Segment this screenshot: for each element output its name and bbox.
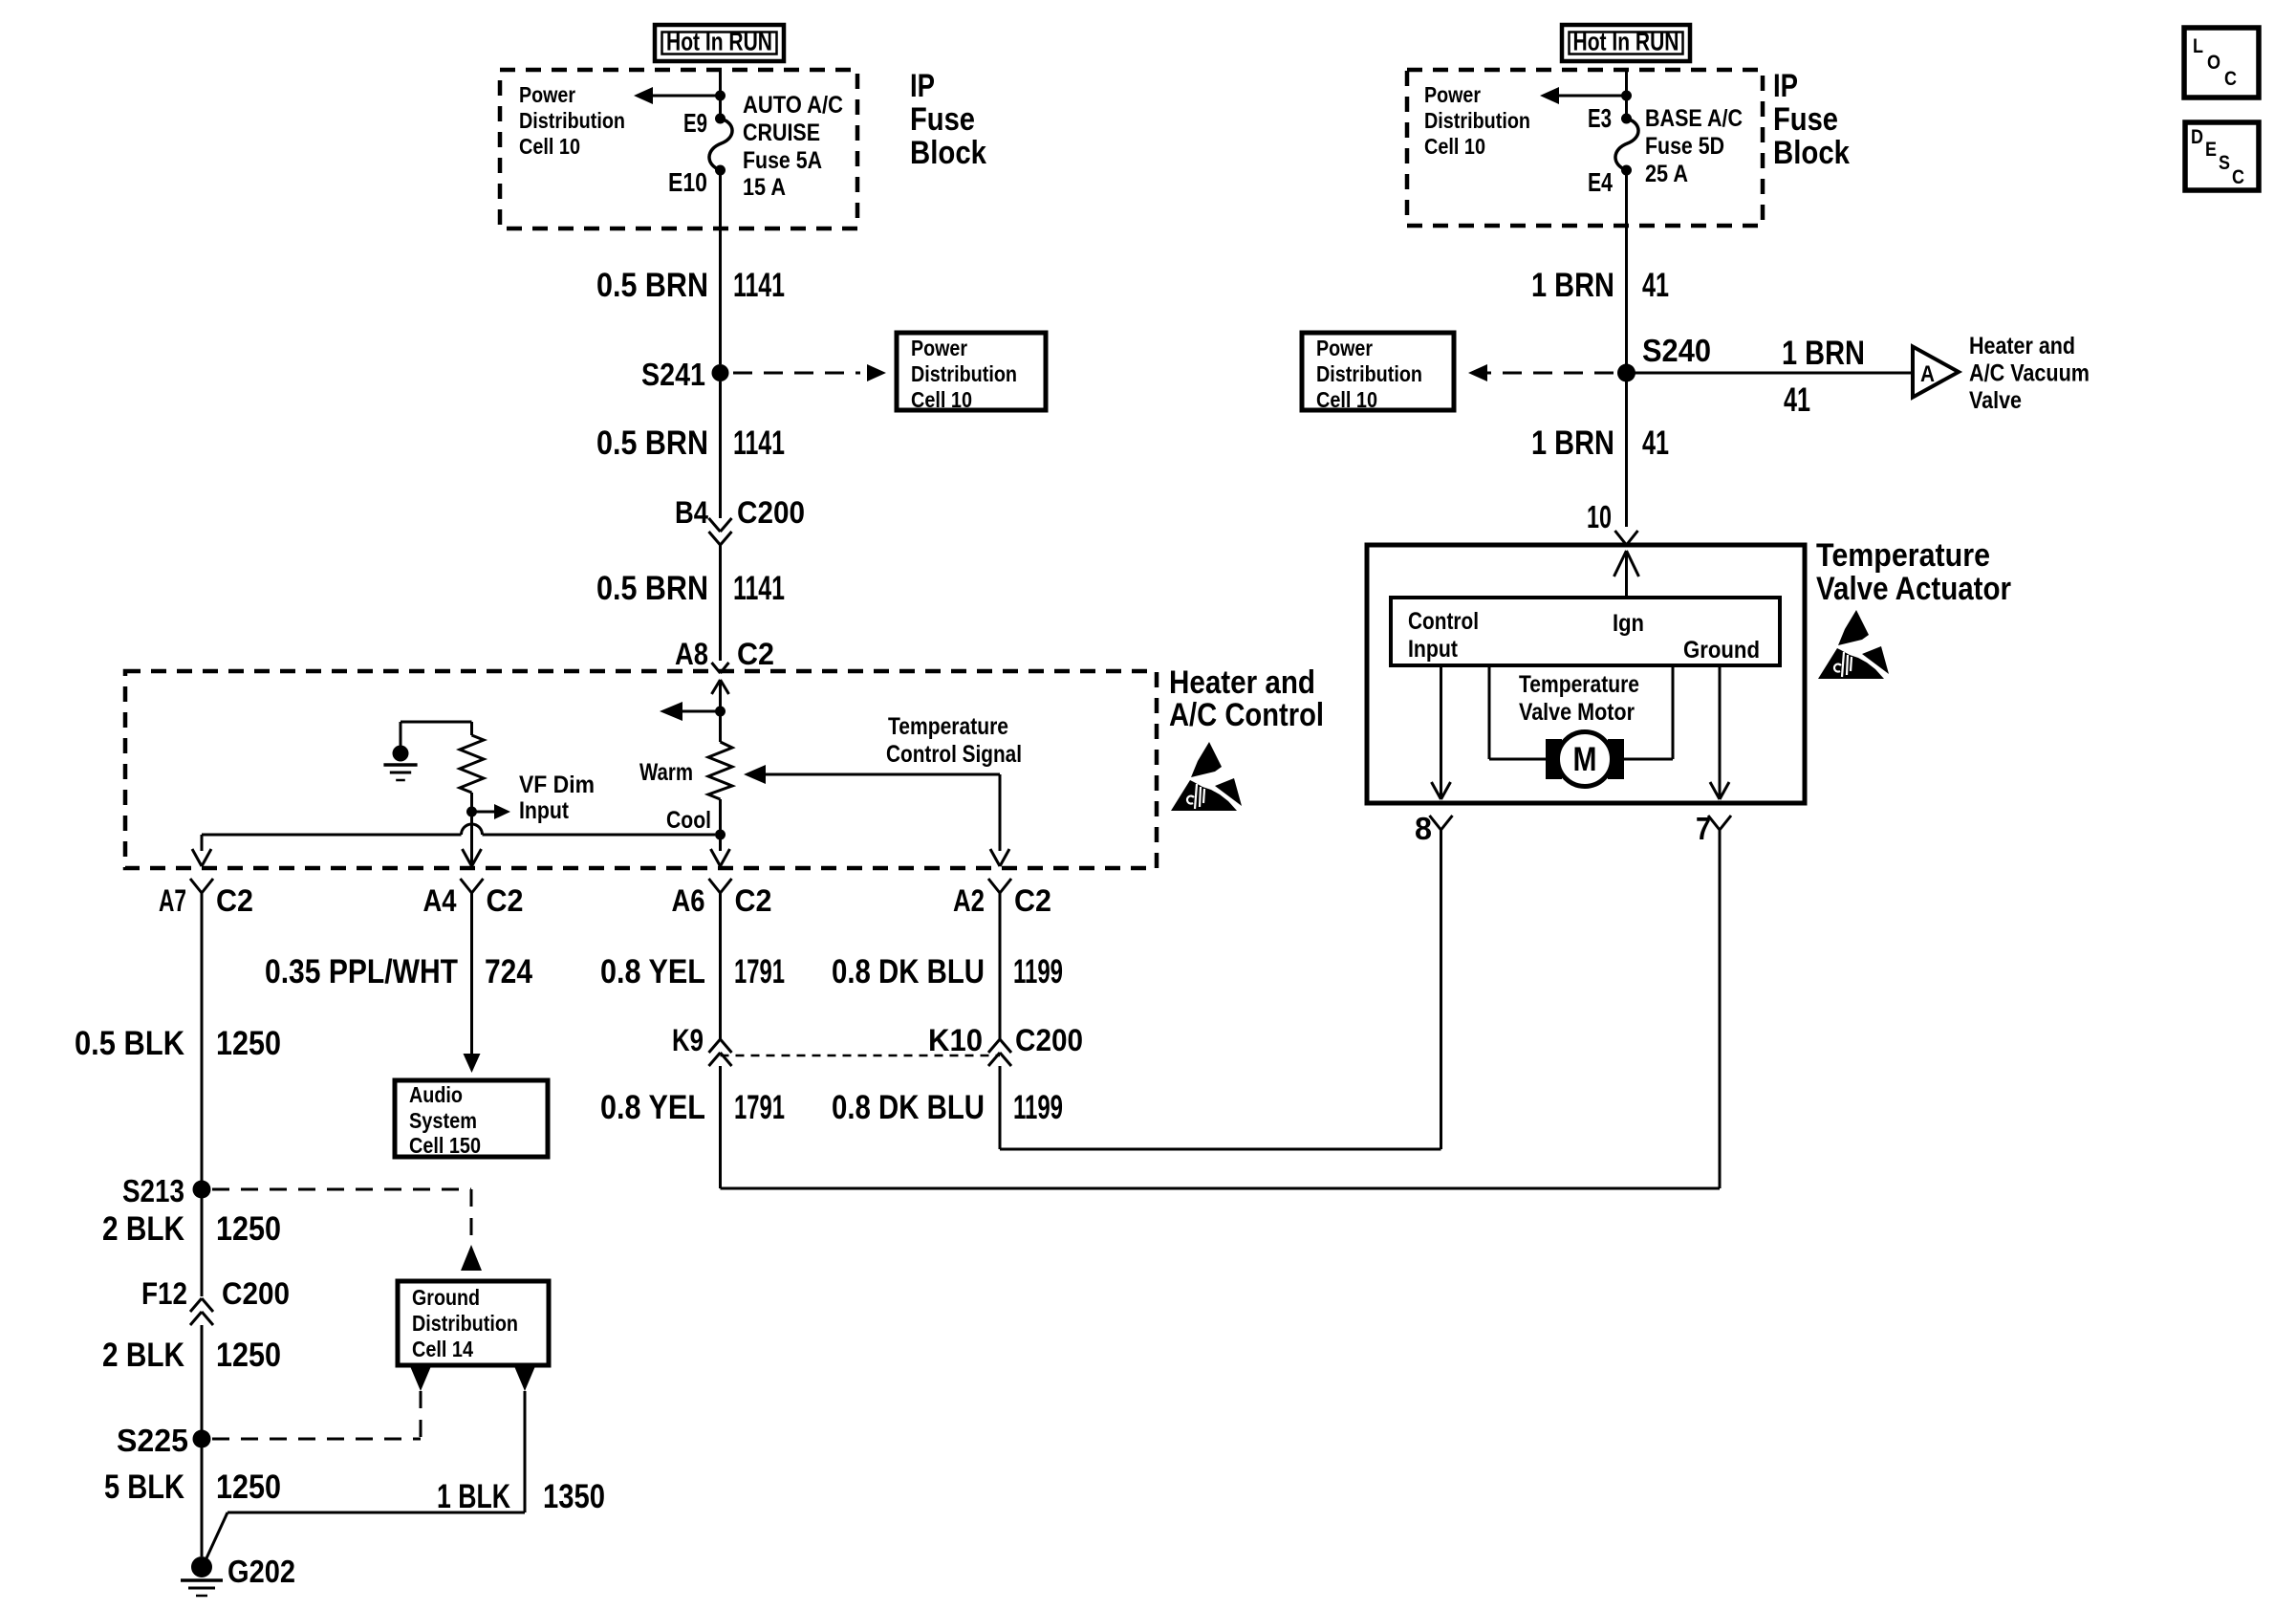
svg-text:E9: E9 [683,108,707,138]
svg-text:1 BRN: 1 BRN [1782,335,1865,372]
svg-text:1199: 1199 [1013,1089,1063,1126]
svg-text:5 BLK: 5 BLK [104,1469,184,1506]
svg-text:Heater and: Heater and [1169,664,1315,701]
svg-text:C200: C200 [737,495,805,530]
svg-text:1791: 1791 [734,953,785,990]
svg-text:1350: 1350 [543,1478,605,1515]
svg-text:F12: F12 [141,1276,187,1311]
svg-text:CRUISE: CRUISE [743,120,820,146]
svg-text:Valve Motor: Valve Motor [1519,699,1635,726]
svg-text:VF Dim: VF Dim [519,772,595,798]
svg-text:1 BLK: 1 BLK [437,1478,510,1515]
svg-text:15 A: 15 A [743,174,786,201]
svg-text:0.5 BRN: 0.5 BRN [596,267,708,304]
svg-text:Warm: Warm [639,759,693,786]
svg-text:K10: K10 [928,1023,983,1057]
svg-text:B4: B4 [675,495,708,530]
svg-text:Distribution: Distribution [1316,361,1422,386]
svg-text:Hot In RUN: Hot In RUN [666,28,772,56]
svg-text:D: D [2191,126,2203,148]
svg-text:Hot In RUN: Hot In RUN [1573,28,1679,56]
svg-text:1141: 1141 [733,570,785,607]
svg-text:Ground: Ground [412,1285,480,1310]
svg-text:C2: C2 [216,883,253,918]
svg-text:A: A [1920,361,1935,387]
svg-text:Cell 10: Cell 10 [911,387,972,412]
svg-text:41: 41 [1642,267,1669,304]
svg-text:A6: A6 [672,883,705,918]
svg-text:0.8 DK BLU: 0.8 DK BLU [832,1089,985,1126]
svg-text:Block: Block [910,135,986,171]
svg-text:1141: 1141 [733,267,785,304]
svg-text:Fuse: Fuse [1773,101,1838,138]
svg-text:A4: A4 [423,883,457,918]
svg-text:Audio: Audio [409,1082,463,1107]
svg-text:BASE A/C: BASE A/C [1645,105,1743,132]
svg-text:2 BLK: 2 BLK [102,1337,184,1374]
svg-text:Distribution: Distribution [911,361,1017,386]
svg-text:AUTO A/C: AUTO A/C [743,92,843,119]
svg-text:S225: S225 [117,1423,188,1458]
svg-text:1199: 1199 [1013,953,1063,990]
svg-text:E4: E4 [1588,167,1613,197]
svg-text:Distribution: Distribution [1424,108,1530,133]
svg-text:41: 41 [1784,381,1810,419]
svg-text:G202: G202 [227,1554,295,1589]
svg-text:S: S [2219,152,2230,174]
svg-text:Cell 150: Cell 150 [409,1133,481,1158]
svg-text:S241: S241 [641,357,705,392]
svg-text:Cell 10: Cell 10 [519,134,580,159]
svg-text:A7: A7 [159,883,186,918]
svg-text:Fuse 5D: Fuse 5D [1645,133,1724,160]
svg-text:Ground: Ground [1683,637,1760,664]
svg-text:L: L [2193,35,2203,57]
svg-text:1250: 1250 [216,1210,281,1248]
svg-text:Temperature: Temperature [1816,537,1990,574]
svg-text:1250: 1250 [216,1337,281,1374]
svg-text:IP: IP [910,68,935,104]
svg-text:C: C [2224,68,2237,90]
svg-text:41: 41 [1642,424,1669,462]
svg-text:C2: C2 [737,637,774,671]
svg-text:0.8 DK BLU: 0.8 DK BLU [832,953,985,990]
svg-text:Temperature: Temperature [888,713,1008,740]
svg-text:Cool: Cool [666,807,711,834]
svg-text:Valve Actuator: Valve Actuator [1816,571,2011,607]
svg-text:0.5 BRN: 0.5 BRN [596,570,708,607]
svg-text:0.8 YEL: 0.8 YEL [600,1089,705,1126]
svg-text:Input: Input [1408,636,1459,663]
svg-text:C200: C200 [1015,1023,1083,1057]
svg-text:C2: C2 [735,883,772,918]
svg-text:0.5 BLK: 0.5 BLK [75,1025,184,1062]
svg-text:2 BLK: 2 BLK [102,1210,184,1248]
svg-text:System: System [409,1108,477,1133]
svg-text:Power: Power [911,336,967,360]
svg-text:Block: Block [1773,135,1850,171]
svg-text:25 A: 25 A [1645,161,1688,187]
svg-text:C200: C200 [222,1276,290,1311]
svg-text:Fuse: Fuse [910,101,975,138]
svg-text:1141: 1141 [733,424,785,462]
svg-text:A2: A2 [953,883,985,918]
svg-text:C: C [2232,166,2244,188]
svg-text:S240: S240 [1642,333,1711,368]
svg-text:Distribution: Distribution [519,108,625,133]
svg-text:Distribution: Distribution [412,1311,518,1336]
svg-text:1 BRN: 1 BRN [1531,424,1614,462]
svg-text:Power: Power [1316,336,1373,360]
svg-text:Cell 10: Cell 10 [1424,134,1485,159]
svg-text:E3: E3 [1588,103,1612,133]
svg-text:E10: E10 [668,167,707,197]
svg-text:S213: S213 [122,1173,184,1208]
svg-text:8: 8 [1415,811,1432,846]
svg-text:724: 724 [485,953,532,990]
svg-text:Power: Power [1424,82,1481,107]
svg-text:0.35 PPL/WHT: 0.35 PPL/WHT [265,953,458,990]
svg-text:7: 7 [1696,811,1711,846]
svg-text:Ign: Ign [1613,610,1644,637]
svg-text:1250: 1250 [216,1025,281,1062]
svg-text:Cell 14: Cell 14 [412,1337,473,1361]
svg-text:C2: C2 [487,883,524,918]
svg-text:Power: Power [519,82,575,107]
svg-text:10: 10 [1587,499,1612,534]
svg-text:Cell 10: Cell 10 [1316,387,1377,412]
svg-text:Input: Input [519,797,570,824]
svg-text:A8: A8 [675,637,708,671]
svg-text:K9: K9 [672,1023,704,1057]
svg-text:Temperature: Temperature [1519,671,1639,698]
svg-text:Valve: Valve [1969,387,2022,414]
svg-text:1250: 1250 [216,1469,281,1506]
svg-text:Fuse 5A: Fuse 5A [743,147,822,174]
svg-text:Control: Control [1408,608,1479,635]
svg-text:1 BRN: 1 BRN [1531,267,1614,304]
svg-text:E: E [2205,139,2217,161]
svg-text:0.8 YEL: 0.8 YEL [600,953,705,990]
svg-text:C2: C2 [1014,883,1051,918]
svg-text:A/C Control: A/C Control [1169,697,1324,733]
svg-text:A/C Vacuum: A/C Vacuum [1969,360,2090,387]
svg-text:0.5 BRN: 0.5 BRN [596,424,708,462]
svg-text:1791: 1791 [734,1089,785,1126]
svg-text:M: M [1573,741,1597,778]
svg-text:Heater and: Heater and [1969,333,2075,359]
svg-text:IP: IP [1773,68,1798,104]
svg-text:O: O [2207,52,2220,74]
svg-text:Control Signal: Control Signal [886,741,1022,768]
